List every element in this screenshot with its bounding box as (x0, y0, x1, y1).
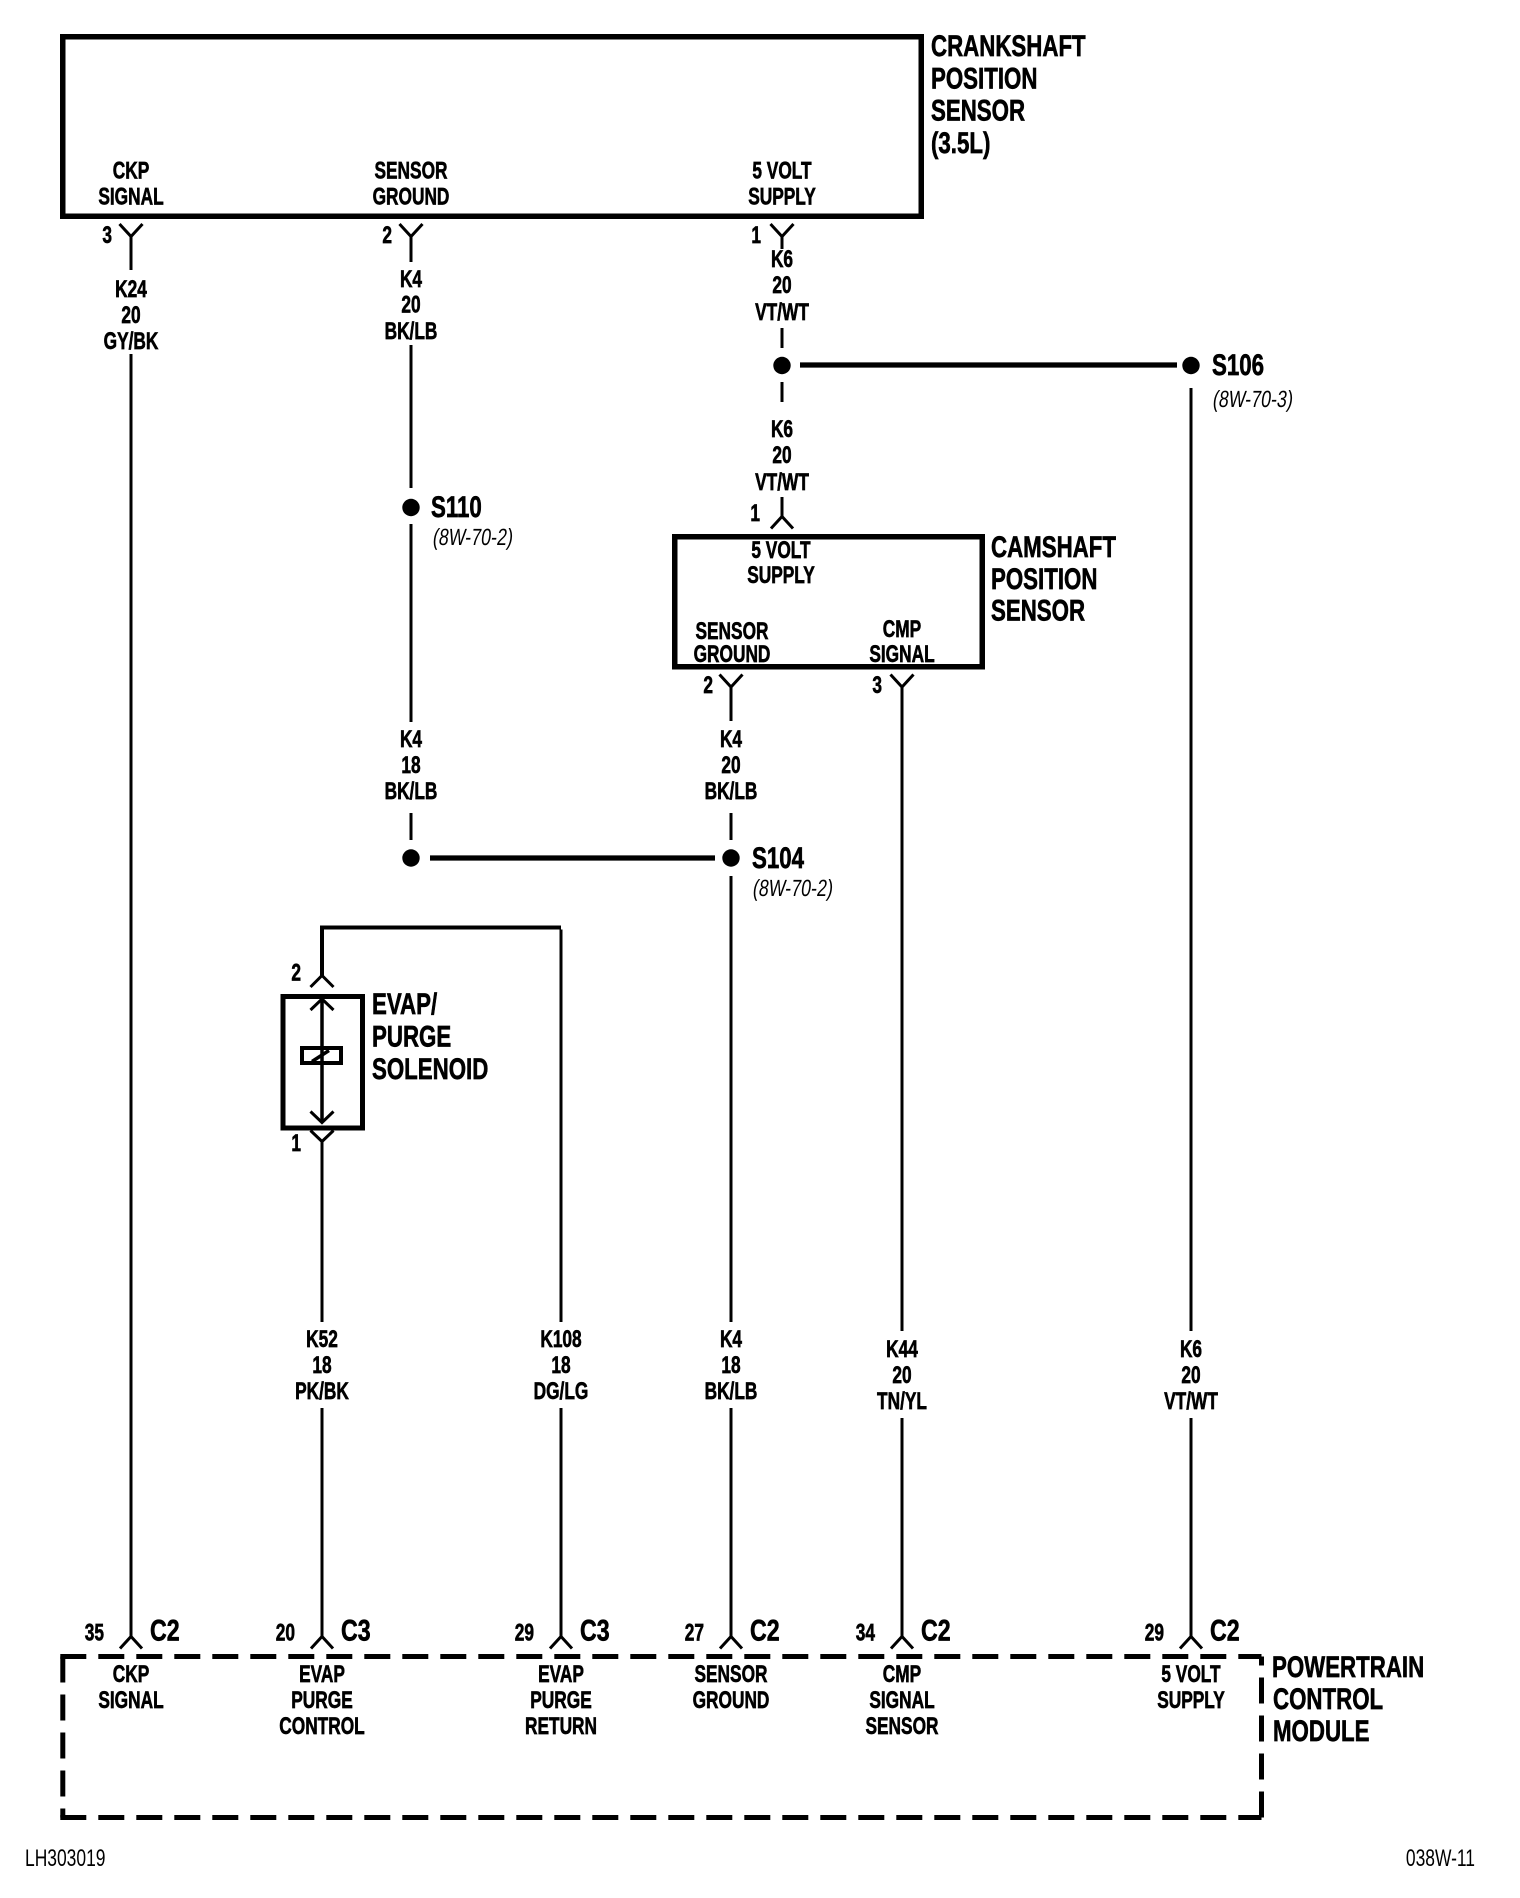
svg-text:(8W-70-3): (8W-70-3) (1211, 387, 1295, 413)
svg-text:CKP: CKP (113, 158, 150, 184)
svg-text:PK/BK: PK/BK (295, 1378, 349, 1404)
svg-text:5 VOLT: 5 VOLT (1161, 1661, 1221, 1687)
svg-text:CAMSHAFT: CAMSHAFT (991, 530, 1116, 564)
svg-text:20: 20 (772, 272, 791, 298)
svg-text:29: 29 (515, 1620, 534, 1646)
svg-text:LH303019: LH303019 (25, 1845, 105, 1871)
svg-text:20: 20 (892, 1362, 911, 1388)
svg-text:C2: C2 (921, 1614, 951, 1647)
svg-text:2: 2 (291, 960, 301, 986)
svg-text:20: 20 (772, 442, 791, 468)
svg-text:SENSOR: SENSOR (931, 93, 1025, 127)
svg-text:S106: S106 (1212, 348, 1264, 382)
svg-text:K6: K6 (771, 416, 793, 442)
svg-text:CONTROL: CONTROL (279, 1713, 365, 1739)
svg-text:K4: K4 (720, 726, 742, 752)
svg-text:SUPPLY: SUPPLY (1157, 1687, 1225, 1713)
svg-text:SENSOR: SENSOR (991, 593, 1085, 627)
svg-text:SIGNAL: SIGNAL (98, 184, 164, 210)
svg-text:20: 20 (276, 1620, 295, 1646)
svg-text:SENSOR: SENSOR (374, 158, 447, 184)
svg-text:PURGE: PURGE (372, 1019, 451, 1053)
svg-text:K44: K44 (886, 1336, 918, 1362)
svg-text:S104: S104 (752, 841, 804, 875)
svg-text:RETURN: RETURN (525, 1713, 597, 1739)
svg-text:POSITION: POSITION (931, 61, 1037, 95)
svg-text:CKP: CKP (113, 1661, 150, 1687)
svg-text:TN/YL: TN/YL (877, 1388, 927, 1414)
svg-text:SOLENOID: SOLENOID (372, 1052, 488, 1086)
svg-text:SIGNAL: SIGNAL (869, 1687, 935, 1713)
svg-text:DG/LG: DG/LG (534, 1378, 589, 1404)
svg-text:K4: K4 (400, 726, 422, 752)
svg-text:20: 20 (1181, 1362, 1200, 1388)
svg-text:GROUND: GROUND (694, 641, 771, 667)
svg-text:VT/WT: VT/WT (755, 469, 809, 495)
svg-text:27: 27 (685, 1620, 704, 1646)
svg-text:SIGNAL: SIGNAL (98, 1687, 164, 1713)
svg-text:1: 1 (751, 222, 761, 248)
svg-text:29: 29 (1145, 1620, 1164, 1646)
svg-text:K6: K6 (1180, 1336, 1202, 1362)
svg-text:GY/BK: GY/BK (104, 328, 159, 354)
svg-text:SUPPLY: SUPPLY (747, 562, 815, 588)
svg-text:3: 3 (872, 672, 882, 698)
svg-text:CONTROL: CONTROL (1273, 1682, 1383, 1716)
svg-text:C3: C3 (580, 1614, 610, 1647)
svg-text:1: 1 (750, 500, 760, 526)
svg-text:EVAP: EVAP (538, 1661, 584, 1687)
svg-text:2: 2 (703, 672, 713, 698)
svg-text:K4: K4 (720, 1326, 742, 1352)
svg-text:K6: K6 (771, 246, 793, 272)
svg-text:(3.5L): (3.5L) (931, 126, 990, 160)
svg-text:(8W-70-2): (8W-70-2) (751, 876, 835, 902)
svg-text:PURGE: PURGE (530, 1687, 592, 1713)
svg-text:SUPPLY: SUPPLY (748, 184, 816, 210)
svg-text:POSITION: POSITION (991, 562, 1097, 596)
svg-text:PURGE: PURGE (291, 1687, 353, 1713)
svg-text:BK/LB: BK/LB (385, 318, 438, 344)
svg-text:SENSOR: SENSOR (694, 1661, 767, 1687)
svg-text:34: 34 (856, 1620, 876, 1646)
svg-text:5 VOLT: 5 VOLT (752, 158, 812, 184)
svg-text:20: 20 (721, 752, 740, 778)
svg-text:K4: K4 (400, 266, 422, 292)
svg-text:VT/WT: VT/WT (1164, 1388, 1218, 1414)
svg-text:CMP: CMP (883, 1661, 922, 1687)
svg-text:GROUND: GROUND (373, 184, 450, 210)
svg-text:SIGNAL: SIGNAL (869, 641, 935, 667)
svg-text:K52: K52 (306, 1326, 338, 1352)
svg-text:POWERTRAIN: POWERTRAIN (1272, 1650, 1424, 1684)
svg-text:C2: C2 (750, 1614, 780, 1647)
svg-text:18: 18 (551, 1352, 570, 1378)
svg-text:20: 20 (401, 292, 420, 318)
svg-text:038W-11: 038W-11 (1406, 1845, 1475, 1871)
svg-text:20: 20 (121, 302, 140, 328)
svg-text:SENSOR: SENSOR (865, 1713, 938, 1739)
svg-text:5 VOLT: 5 VOLT (751, 537, 811, 563)
svg-text:MODULE: MODULE (1273, 1714, 1370, 1748)
svg-text:K108: K108 (540, 1326, 581, 1352)
svg-text:18: 18 (721, 1352, 740, 1378)
svg-text:18: 18 (401, 752, 420, 778)
svg-text:2: 2 (382, 222, 392, 248)
svg-text:1: 1 (291, 1130, 301, 1156)
svg-text:18: 18 (312, 1352, 331, 1378)
svg-text:BK/LB: BK/LB (705, 1378, 758, 1404)
svg-text:35: 35 (85, 1620, 104, 1646)
svg-text:EVAP/: EVAP/ (372, 987, 438, 1021)
svg-text:3: 3 (102, 222, 112, 248)
svg-text:CRANKSHAFT: CRANKSHAFT (931, 29, 1086, 63)
svg-text:K24: K24 (115, 276, 147, 302)
svg-text:EVAP: EVAP (299, 1661, 345, 1687)
svg-text:C2: C2 (1210, 1614, 1240, 1647)
svg-text:(8W-70-2): (8W-70-2) (431, 525, 515, 551)
svg-text:GROUND: GROUND (693, 1687, 770, 1713)
svg-text:BK/LB: BK/LB (705, 778, 758, 804)
svg-text:BK/LB: BK/LB (385, 778, 438, 804)
svg-text:CMP: CMP (883, 616, 922, 642)
svg-text:C3: C3 (341, 1614, 371, 1647)
svg-text:C2: C2 (150, 1614, 180, 1647)
svg-text:S110: S110 (431, 490, 482, 524)
svg-text:VT/WT: VT/WT (755, 299, 809, 325)
